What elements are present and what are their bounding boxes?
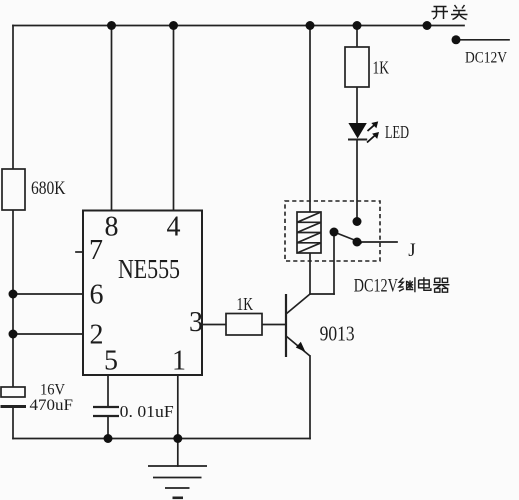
wire pin3 xyxy=(202,324,226,326)
svg-text:7: 7 xyxy=(89,235,103,266)
resistor 680K box xyxy=(2,169,25,210)
svg-text:DC12V: DC12V xyxy=(465,50,507,67)
label switch 开关 xyxy=(432,5,468,20)
wire pin5 cap to bottom xyxy=(107,416,109,439)
node top relay xyxy=(306,21,315,30)
IC NE555 box xyxy=(83,211,202,376)
svg-text:470uF: 470uF xyxy=(30,397,74,414)
svg-text:1: 1 xyxy=(172,346,186,377)
svg-text:5: 5 xyxy=(104,346,118,377)
wire left rail upper xyxy=(12,26,14,171)
LED D1 xyxy=(348,121,379,142)
svg-text:LED: LED xyxy=(385,122,409,142)
svg-text:8: 8 xyxy=(105,212,119,243)
capacitor C1 470uF xyxy=(1,387,27,408)
wire pin6 xyxy=(13,293,83,295)
svg-text:1K: 1K xyxy=(237,294,254,314)
svg-text:1K: 1K xyxy=(373,58,390,78)
resistor 1K base box xyxy=(226,314,262,336)
svg-text:3: 3 xyxy=(189,307,203,338)
node contact out xyxy=(353,238,362,247)
wire relay coil drop xyxy=(309,26,311,213)
svg-text:680K: 680K xyxy=(31,178,66,199)
wire contact pivot drop xyxy=(333,232,335,294)
relay coil xyxy=(297,212,321,253)
wire pin1 drop xyxy=(177,375,179,439)
node bottom pin1 xyxy=(173,434,182,443)
capacitor C2 0.01uF xyxy=(93,407,119,416)
node top 1K xyxy=(353,21,362,30)
wire pin4 drop xyxy=(173,26,175,211)
svg-text:4: 4 xyxy=(167,212,181,243)
svg-text:2: 2 xyxy=(90,320,104,351)
transistor Q1 9013 xyxy=(286,294,310,357)
svg-text:9013: 9013 xyxy=(320,322,355,346)
node top pin8 xyxy=(107,21,116,30)
wire left rail mid xyxy=(12,209,14,388)
node contact NO xyxy=(353,217,362,226)
resistor 1K top box xyxy=(345,47,369,87)
wire LED to contact xyxy=(356,140,358,222)
svg-text:NE555: NE555 xyxy=(118,254,180,284)
wire top rail xyxy=(13,25,464,27)
node rail pin6 xyxy=(9,290,18,299)
svg-text:16V: 16V xyxy=(40,382,65,399)
label 继电器 xyxy=(399,277,450,292)
wire resistor to base xyxy=(262,324,286,326)
node rail pin2 xyxy=(9,330,18,339)
wire switch output xyxy=(456,39,509,41)
wire coil bottom xyxy=(309,253,311,294)
node switch left xyxy=(423,21,432,30)
wire 1K top drop xyxy=(356,26,358,48)
svg-text:6: 6 xyxy=(90,280,104,311)
wire emitter drop xyxy=(309,356,311,439)
wire left rail lower xyxy=(12,407,14,439)
node switch right xyxy=(452,35,461,44)
wire pin7 stub xyxy=(76,251,83,253)
wire collector node horizontal xyxy=(310,293,334,295)
relay K1 dashed box xyxy=(285,201,380,261)
wire pin8 drop xyxy=(111,26,113,211)
wire 1K to LED xyxy=(356,87,358,123)
wire pin2 xyxy=(13,333,83,335)
wire pin5 drop xyxy=(107,375,109,407)
ground xyxy=(148,466,207,498)
svg-text:DC12V: DC12V xyxy=(354,276,398,297)
svg-text:0. 01uF: 0. 01uF xyxy=(120,402,174,421)
relay contact blade xyxy=(334,232,362,243)
wire ground drop xyxy=(177,439,179,467)
node top pin4 xyxy=(169,21,178,30)
wire contact output xyxy=(357,241,397,243)
node bottom pin5 xyxy=(104,434,113,443)
svg-text:J: J xyxy=(408,240,415,261)
node contact pivot xyxy=(330,228,339,237)
wire bottom rail xyxy=(13,438,310,440)
